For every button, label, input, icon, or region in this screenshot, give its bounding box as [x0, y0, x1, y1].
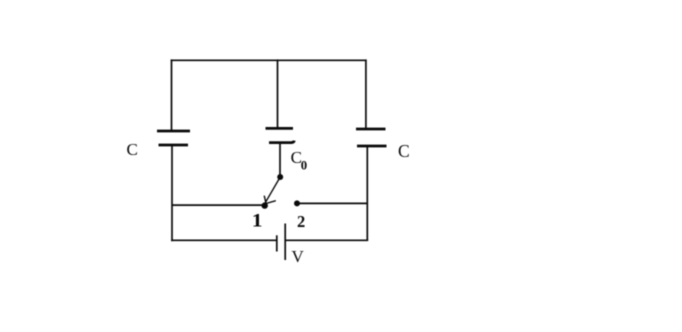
battery V positive plate (long)	[284, 224, 286, 261]
capacitor C (left)	[157, 131, 190, 145]
wire middle vertical lower	[279, 143, 281, 177]
wire middle vertical upper	[277, 59, 279, 128]
switch arrowhead barb right	[266, 201, 276, 204]
svg-text:2: 2	[297, 212, 305, 231]
battery V negative plate (short)	[276, 235, 278, 251]
svg-text:C: C	[398, 141, 410, 161]
wire right vertical upper	[365, 59, 367, 128]
wire top bus	[171, 59, 366, 61]
node contact 2	[294, 200, 300, 206]
wire left vertical lower	[171, 146, 173, 241]
capacitor C0 (middle)	[266, 128, 295, 142]
svg-text:0: 0	[301, 159, 307, 173]
svg-text:V: V	[292, 247, 305, 266]
wire left vertical upper	[171, 59, 173, 130]
wire right vertical lower	[366, 147, 368, 240]
svg-text:C: C	[127, 140, 138, 159]
switch pole node	[277, 174, 283, 180]
node contact 1	[262, 202, 268, 208]
wire from contact 2	[298, 202, 368, 204]
wire to contact 1	[172, 204, 263, 206]
capacitor C (right)	[356, 129, 387, 146]
wire bottom left	[171, 239, 276, 241]
wire bottom right	[286, 239, 368, 241]
svg-text:1: 1	[252, 212, 263, 232]
switch arrowhead barb up	[264, 196, 266, 204]
switch blade (pole to contact 1)	[265, 177, 280, 203]
